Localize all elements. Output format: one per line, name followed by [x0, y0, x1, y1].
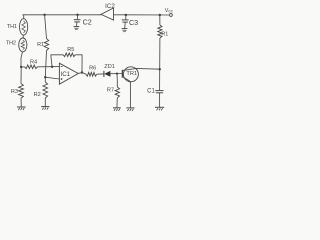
svg-text:R1: R1	[37, 42, 44, 48]
svg-text:R1: R1	[161, 32, 168, 38]
svg-text:Vcc: Vcc	[165, 8, 174, 14]
svg-text:ZD1: ZD1	[104, 64, 115, 70]
svg-text:R5: R5	[67, 47, 74, 53]
svg-text:R3: R3	[11, 89, 18, 95]
svg-text:IC2: IC2	[105, 3, 115, 10]
svg-text:R6: R6	[89, 66, 96, 72]
svg-text:IC1: IC1	[60, 71, 70, 78]
svg-text:TH1: TH1	[7, 24, 17, 30]
svg-text:R2: R2	[34, 92, 41, 98]
svg-text:C3: C3	[129, 18, 138, 27]
svg-text:C1: C1	[147, 88, 155, 94]
svg-text:TH2: TH2	[6, 41, 16, 47]
svg-text:R4: R4	[30, 59, 37, 65]
svg-text:R7: R7	[107, 87, 114, 93]
svg-text:C2: C2	[83, 17, 92, 26]
svg-text:TR1: TR1	[126, 71, 137, 77]
